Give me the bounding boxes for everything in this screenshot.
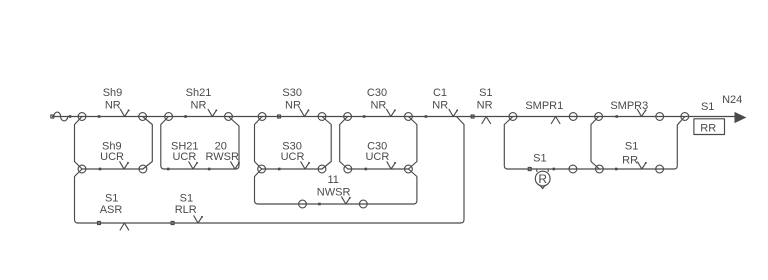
svg-text:NR: NR bbox=[432, 100, 448, 112]
wire ASR branch bbox=[78, 222, 461, 224]
wire NWSR branch bbox=[258, 203, 413, 205]
svg-text:R: R bbox=[538, 172, 547, 186]
contact S30 NR bbox=[300, 109, 308, 116]
contact S30 UCR bbox=[301, 162, 309, 169]
contact Sh9 UCR bbox=[120, 162, 128, 169]
terminal G5 bbox=[596, 165, 604, 173]
junction dot bbox=[471, 115, 474, 118]
svg-text:RWSR: RWSR bbox=[205, 151, 238, 163]
junction dot bbox=[208, 168, 211, 171]
svg-text:SMPR3: SMPR3 bbox=[610, 100, 648, 112]
wire right rail of Sh9 box bbox=[143, 117, 153, 170]
terminal G2 bbox=[569, 113, 577, 121]
junction dot bbox=[171, 222, 174, 225]
svg-text:11: 11 bbox=[327, 174, 338, 186]
terminal E4 bbox=[405, 165, 413, 173]
terminal E1 bbox=[344, 113, 352, 121]
wire NWSR right rail bbox=[408, 169, 417, 204]
junction dot bbox=[425, 115, 428, 118]
contact C30 UCR bbox=[387, 162, 395, 169]
wire Sh21 box right rail bbox=[229, 117, 240, 170]
wire left rail jog from A1 bbox=[75, 117, 83, 162]
svg-text:S1: S1 bbox=[105, 193, 118, 205]
feed squiggle (AC source mark) bbox=[54, 112, 68, 121]
svg-text:NR: NR bbox=[477, 100, 493, 112]
junction dot bbox=[278, 115, 281, 118]
wire S30 UCR branch bbox=[262, 168, 322, 170]
terminal D1 bbox=[258, 113, 266, 121]
wire right block right rail bbox=[674, 117, 685, 170]
svg-text:ASR: ASR bbox=[100, 204, 123, 216]
lamp ticks bbox=[536, 169, 538, 172]
junction dot bbox=[616, 115, 619, 118]
wire S30 box left rail bbox=[255, 117, 263, 170]
wire drop to ASR branch bbox=[457, 117, 465, 224]
terminal G3 bbox=[595, 113, 603, 121]
svg-text:RR: RR bbox=[622, 154, 638, 166]
wire Sh21 box left rail bbox=[161, 117, 169, 170]
relay box RR bbox=[694, 119, 725, 135]
junction dot bbox=[99, 168, 102, 171]
wire Sh21 box bottom bbox=[164, 168, 235, 170]
junction dot bbox=[318, 203, 321, 206]
terminal H1 bbox=[656, 113, 664, 121]
wire jog into A2 bbox=[75, 162, 83, 170]
terminal C1 bbox=[165, 113, 173, 121]
wire NWSR left rail bbox=[255, 169, 262, 204]
terminal A2 bbox=[78, 165, 86, 173]
terminal D2 bbox=[318, 113, 326, 121]
svg-text:C1: C1 bbox=[433, 87, 447, 99]
contact SMPR3 bbox=[637, 109, 645, 116]
svg-text:UCR: UCR bbox=[172, 151, 196, 163]
svg-text:S30: S30 bbox=[282, 87, 302, 99]
terminal D4 bbox=[318, 165, 326, 173]
svg-text:S1: S1 bbox=[533, 153, 546, 165]
svg-text:NR: NR bbox=[191, 100, 207, 112]
svg-text:RLR: RLR bbox=[175, 204, 197, 216]
contact SMPR1 bbox=[551, 117, 560, 124]
contact 11 NWSR bbox=[342, 197, 350, 204]
wire main bus bbox=[53, 116, 736, 118]
junction dot bbox=[98, 115, 101, 118]
feed terminal bbox=[51, 115, 54, 118]
junction dot bbox=[167, 168, 170, 171]
wire lamp branch bbox=[508, 168, 674, 170]
junction dot bbox=[278, 168, 281, 171]
contact Sh21 NR bbox=[208, 109, 216, 116]
svg-text:NR: NR bbox=[105, 100, 121, 112]
terminal G1 bbox=[509, 113, 517, 121]
svg-text:N24: N24 bbox=[722, 94, 742, 106]
svg-text:Sh9: Sh9 bbox=[103, 87, 123, 99]
wire S30 box right rail bbox=[322, 117, 331, 170]
terminal H2 bbox=[681, 113, 689, 121]
terminal E3 bbox=[344, 165, 352, 173]
svg-text:UCR: UCR bbox=[281, 151, 305, 163]
junction dot bbox=[528, 168, 531, 171]
terminal B1 bbox=[139, 113, 147, 121]
terminal D3 bbox=[258, 165, 266, 173]
svg-text:S1: S1 bbox=[625, 141, 638, 153]
wire C30 box left rail bbox=[340, 117, 348, 170]
wire middle rail bbox=[591, 117, 599, 170]
wire C30 UCR branch bbox=[348, 168, 409, 170]
terminal A1 bbox=[78, 113, 86, 121]
svg-text:NR: NR bbox=[285, 100, 301, 112]
contact Sh9 NR bbox=[120, 109, 128, 116]
contact SH21 UCR bbox=[189, 162, 197, 169]
contact 20 RWSR bbox=[231, 162, 239, 169]
lamp S1 R bbox=[535, 171, 550, 186]
junction dot bbox=[615, 168, 618, 171]
terminal G4 bbox=[569, 165, 577, 173]
svg-text:S1: S1 bbox=[701, 101, 714, 113]
contact S1 RLR bbox=[194, 216, 202, 223]
svg-text:C30: C30 bbox=[367, 87, 387, 99]
svg-text:S1: S1 bbox=[479, 87, 492, 99]
contact S1 NR bbox=[482, 117, 491, 124]
contact C1 NR bbox=[449, 109, 457, 116]
contact S1 RR bbox=[638, 162, 646, 169]
wire left rail lower bbox=[75, 169, 83, 223]
svg-text:Sh21: Sh21 bbox=[186, 87, 212, 99]
contact S1 ASR bbox=[120, 223, 129, 230]
svg-text:UCR: UCR bbox=[365, 151, 389, 163]
svg-text:NWSR: NWSR bbox=[317, 186, 351, 198]
junction dot bbox=[365, 168, 368, 171]
junction dot bbox=[363, 115, 366, 118]
wire C30 box right rail bbox=[408, 117, 417, 170]
svg-text:NR: NR bbox=[370, 100, 386, 112]
arrow N24 output bbox=[735, 112, 747, 123]
svg-text:RR: RR bbox=[700, 122, 716, 134]
terminal F1 bbox=[299, 200, 307, 208]
svg-text:UCR: UCR bbox=[100, 151, 124, 163]
junction dot bbox=[69, 115, 72, 118]
svg-text:S1: S1 bbox=[180, 193, 193, 205]
terminal F2 bbox=[359, 200, 367, 208]
contact C30 NR bbox=[387, 109, 395, 116]
terminal E2 bbox=[405, 113, 413, 121]
wire right block left rail bbox=[504, 117, 513, 170]
terminal B2 bbox=[139, 165, 147, 173]
junction dot bbox=[553, 168, 556, 171]
junction dot bbox=[184, 115, 187, 118]
junction dot bbox=[98, 222, 101, 225]
terminal H3 bbox=[656, 165, 664, 173]
svg-text:SMPR1: SMPR1 bbox=[525, 100, 563, 112]
wire Sh9 UCR branch bbox=[82, 168, 143, 170]
terminal C2 bbox=[225, 113, 233, 121]
